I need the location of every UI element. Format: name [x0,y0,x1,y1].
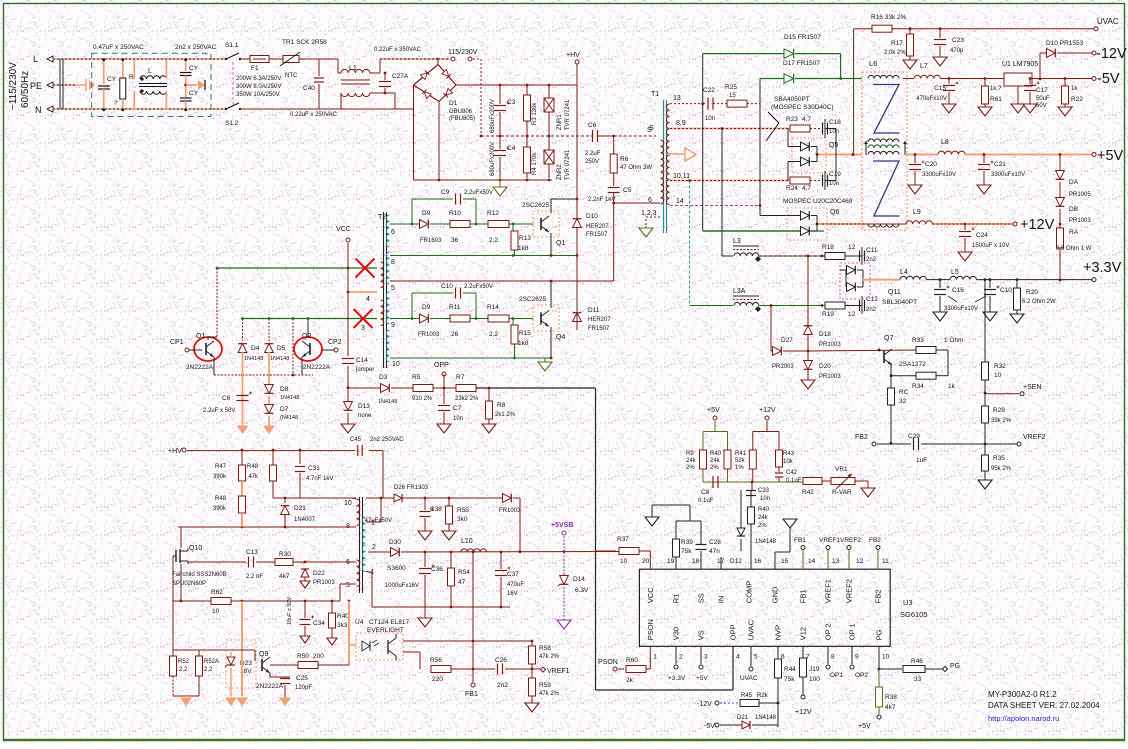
svg-text:1N4007: 1N4007 [294,517,316,523]
svg-text:L3: L3 [733,238,741,245]
svg-text:75k: 75k [681,548,692,555]
svg-text:HER207: HER207 [588,317,611,323]
svg-text:D15 FR1507: D15 FR1507 [784,34,821,41]
svg-text:Q5: Q5 [829,142,838,149]
svg-text:C17: C17 [1036,87,1048,94]
svg-text:1%: 1% [735,465,744,471]
svg-text:2k1 2%: 2k1 2% [495,412,516,418]
svg-text:V12: V12 [799,627,808,640]
svg-text:SBL3040PT: SBL3040PT [882,299,917,306]
svg-text:Fairchild SSS2N60B: Fairchild SSS2N60B [172,572,227,578]
svg-text:Q4: Q4 [556,334,565,341]
svg-text:C15: C15 [934,85,946,92]
svg-text:R9: R9 [686,451,694,457]
svg-text:5: 5 [346,582,350,589]
svg-text:D27: D27 [781,337,793,344]
svg-text:T2: T2 [378,214,386,221]
svg-text:L: L [148,68,152,75]
svg-text:6.2 Ohm 2W: 6.2 Ohm 2W [1022,299,1056,305]
svg-text:R52A: R52A [204,659,219,665]
svg-text:26: 26 [451,331,459,338]
svg-text:F1: F1 [251,65,259,72]
svg-text:L5: L5 [951,269,959,276]
svg-text:R45: R45 [741,693,753,699]
svg-text:PE: PE [30,81,42,91]
svg-text:4: 4 [736,653,740,660]
svg-text:C45: C45 [350,437,362,443]
svg-text:Q2: Q2 [302,333,311,340]
svg-text:95k 2%: 95k 2% [991,466,1012,472]
svg-text:R40: R40 [758,507,770,513]
svg-text:47k 2%: 47k 2% [539,654,560,660]
svg-text:R62: R62 [211,589,223,596]
svg-text:R58: R58 [539,645,551,652]
svg-text:R12: R12 [487,210,499,217]
svg-text:220: 220 [432,676,443,683]
svg-text:-12V: -12V [697,701,712,708]
svg-text:GND: GND [771,586,780,603]
svg-text:R5: R5 [412,374,421,381]
svg-text:R1: R1 [672,594,681,604]
svg-text:CY: CY [107,76,117,83]
svg-text:1N4148: 1N4148 [378,399,397,405]
svg-text:3k0: 3k0 [457,516,468,523]
svg-text:T1: T1 [651,91,659,98]
svg-text:R55: R55 [457,507,469,514]
svg-text:SS: SS [697,593,706,603]
svg-text:C14: C14 [356,357,368,364]
svg-text:R14: R14 [487,304,499,311]
svg-text:1,2,3: 1,2,3 [641,210,657,217]
svg-text:U3: U3 [903,598,913,607]
svg-text:47 Ohm 3W: 47 Ohm 3W [620,165,652,171]
svg-text:OP2: OP2 [855,672,868,679]
svg-text:L4: L4 [900,269,908,276]
svg-text:47n: 47n [709,548,720,555]
svg-text:+5V: +5V [696,675,708,682]
svg-text:SG6105: SG6105 [900,610,928,619]
svg-text:D5: D5 [277,345,286,352]
svg-text:PR1003: PR1003 [772,364,794,370]
svg-text:GBU806: GBU806 [449,109,473,115]
svg-text:N: N [35,105,42,115]
svg-text:CP2: CP2 [328,339,342,346]
svg-text:ZNR1: ZNR1 [557,114,563,130]
svg-text:2,2: 2,2 [179,667,188,673]
svg-text:~115/230V: ~115/230V [8,62,19,110]
svg-text:300W 8.0A/250V: 300W 8.0A/250V [236,84,281,90]
svg-text:C38: C38 [430,506,442,513]
svg-text:R23: R23 [786,116,798,123]
svg-text:390k: 390k [213,506,227,512]
svg-text:+12V: +12V [795,709,812,716]
svg-text:R38: R38 [885,694,897,701]
svg-text:10n: 10n [760,496,770,502]
svg-text:4.7nF 1kV: 4.7nF 1kV [306,476,333,482]
svg-text:10: 10 [212,608,220,615]
svg-text:200: 200 [313,653,324,660]
svg-text:2N2222A: 2N2222A [186,364,214,371]
svg-text:2N2222A: 2N2222A [303,364,331,371]
svg-text:50V: 50V [1036,103,1047,109]
svg-text:36: 36 [451,237,459,244]
svg-text:R44: R44 [784,666,796,673]
svg-text:S: S [647,127,652,134]
svg-text:C7: C7 [453,405,462,412]
svg-text:R13: R13 [519,235,531,242]
svg-text:+5V: +5V [1097,148,1124,164]
svg-text:PSON: PSON [598,659,618,666]
svg-text:10: 10 [994,372,1002,379]
svg-text:PR1003: PR1003 [819,374,841,380]
svg-text:R34: R34 [912,383,924,390]
svg-text:U1 LM7905: U1 LM7905 [1002,61,1038,68]
svg-text:D30: D30 [389,539,401,546]
svg-text:R30: R30 [279,551,291,558]
svg-text:24k: 24k [686,458,697,464]
svg-text:-12V: -12V [1096,46,1127,62]
svg-text:CT124 EL817: CT124 EL817 [369,619,409,626]
svg-text:R16 33k 2%: R16 33k 2% [871,14,907,21]
svg-text:0.5 Ohm 1 W: 0.5 Ohm 1 W [1056,246,1092,252]
svg-text:OPP: OPP [434,362,449,369]
svg-text:2,2: 2,2 [489,331,498,338]
svg-text:4: 4 [366,296,370,303]
svg-text:16: 16 [754,558,762,565]
svg-text:DB: DB [1069,206,1078,213]
svg-text:680uFx200V: 680uFx200V [490,99,496,133]
svg-text:+HV: +HV [168,448,182,455]
svg-text:2n2: 2n2 [497,682,508,689]
svg-text:D11: D11 [588,307,600,314]
svg-text:32: 32 [899,398,907,405]
svg-text:V30: V30 [672,627,681,640]
svg-text:3300uFx10V: 3300uFx10V [944,306,978,312]
svg-text:FR1507: FR1507 [586,232,608,238]
svg-text:C21: C21 [994,161,1006,168]
svg-text:R37: R37 [617,536,629,543]
svg-text:1uF: 1uF [916,457,927,464]
svg-text:DA: DA [1069,179,1079,186]
svg-text:L: L [33,54,38,64]
svg-text:6: 6 [391,229,395,236]
svg-text:13: 13 [673,95,681,102]
svg-text:jumper: jumper [355,367,374,373]
svg-text:R59: R59 [539,682,551,689]
svg-text:R3 130k: R3 130k [532,102,538,125]
svg-text:none: none [358,413,372,419]
svg-text:R24: R24 [786,185,798,192]
svg-text:18: 18 [692,558,700,565]
svg-text:1k ?: 1k ? [990,86,1002,92]
svg-text:1k: 1k [1071,86,1078,92]
svg-text:D4: D4 [251,345,260,352]
svg-text:23k2 2%: 23k2 2% [455,396,479,402]
svg-text:R10: R10 [449,210,461,217]
svg-text:D1: D1 [449,100,458,107]
svg-text:R-VAR: R-VAR [832,489,852,496]
svg-text:115/230V: 115/230V [448,49,478,56]
svg-text:10: 10 [882,653,890,660]
svg-text:C31: C31 [308,465,320,472]
svg-text:Q6: Q6 [830,209,839,216]
svg-text:R43: R43 [783,451,795,457]
svg-text:(FBU805): (FBU805) [449,116,475,122]
svg-text:3: 3 [704,653,708,660]
svg-text:47uFx50V: 47uFx50V [365,518,392,524]
svg-text:FR1003: FR1003 [418,332,440,338]
svg-text:14: 14 [808,558,816,565]
svg-text:C4: C4 [507,145,516,152]
svg-text:D12: D12 [730,558,742,565]
svg-text:11: 11 [882,558,889,565]
svg-text:D14: D14 [573,576,585,583]
svg-text:39k 2%: 39k 2% [991,418,1012,424]
svg-text:FB2: FB2 [855,434,868,441]
svg-text:L10: L10 [461,538,473,545]
svg-text:FB2: FB2 [874,589,883,603]
svg-text:1k8: 1k8 [518,340,529,347]
svg-text:RA: RA [1069,229,1079,236]
svg-text:10n: 10n [829,181,839,187]
svg-text:DATA SHEET VER. 27.02.2004: DATA SHEET VER. 27.02.2004 [988,701,1100,710]
svg-text:R29: R29 [993,407,1005,414]
svg-text:1000uFx16V: 1000uFx16V [385,583,419,589]
svg-text:SPU02N60P: SPU02N60P [172,581,206,587]
svg-text:Q11: Q11 [888,289,901,296]
svg-text:D17 FR1507: D17 FR1507 [783,60,820,67]
svg-text:33: 33 [914,676,922,683]
svg-text:4k7: 4k7 [279,573,290,580]
svg-text:47k: 47k [248,474,259,480]
svg-text:2%: 2% [758,523,767,529]
svg-text:R50: R50 [297,653,309,660]
svg-text:CY: CY [189,65,199,72]
svg-text:C36: C36 [431,566,443,573]
svg-text:L7: L7 [920,63,928,70]
svg-text:120pF: 120pF [295,685,312,691]
svg-text:FB1: FB1 [799,589,808,603]
svg-text:C40: C40 [303,85,315,92]
svg-text:R52: R52 [178,659,190,665]
svg-text:0.1uF: 0.1uF [698,498,714,504]
svg-text:L6: L6 [869,59,877,68]
svg-text:0.47uF x 250VAC: 0.47uF x 250VAC [93,44,144,51]
svg-text:14: 14 [676,198,684,205]
svg-text:12: 12 [848,244,856,251]
svg-text:75k: 75k [784,676,795,683]
svg-text:R4 170k: R4 170k [532,152,538,175]
svg-text:R48: R48 [247,464,259,470]
svg-text:J19: J19 [809,666,820,673]
svg-text:R15: R15 [519,330,531,337]
svg-text:+3.3V: +3.3V [668,675,686,682]
svg-text:NVP: NVP [774,625,783,640]
svg-text:R39: R39 [681,539,693,546]
svg-text:TVR 07241: TVR 07241 [565,99,571,130]
svg-text:VR1: VR1 [835,466,848,473]
svg-text:R6: R6 [620,156,629,163]
svg-text:2n2 250VAC: 2n2 250VAC [370,437,404,443]
svg-text:2%: 2% [710,465,719,471]
svg-text:10uF x 50V: 10uF x 50V [287,597,293,625]
svg-text:C13: C13 [246,549,258,556]
svg-text:1500uF x 10V: 1500uF x 10V [972,243,1009,249]
svg-text:MOSPEC U20C20C469: MOSPEC U20C20C469 [783,198,853,205]
svg-text:R33: R33 [912,337,924,344]
svg-text:R: R [129,74,134,81]
svg-text:2SC2625: 2SC2625 [522,202,549,209]
svg-text:PR1003: PR1003 [1069,218,1091,224]
svg-text:R47: R47 [215,464,227,470]
svg-text:+5V: +5V [707,407,720,414]
svg-text:1N4148: 1N4148 [755,715,777,721]
svg-text:52k: 52k [735,458,746,464]
svg-text:PR1003: PR1003 [313,580,335,586]
svg-text:8: 8 [391,259,395,266]
svg-text:OP 2: OP 2 [824,623,833,640]
svg-text:10,11: 10,11 [673,173,690,180]
svg-text:C18: C18 [829,119,841,126]
svg-text:350W 10A/250V: 350W 10A/250V [236,92,280,98]
svg-text:MY-P300A2-0 R1.2: MY-P300A2-0 R1.2 [988,690,1057,699]
svg-text:Q10: Q10 [189,545,202,552]
svg-text:U4: U4 [355,619,364,626]
svg-text:C19: C19 [829,171,841,178]
svg-text:C9: C9 [441,189,450,196]
svg-text:R11: R11 [449,304,461,311]
svg-text:3300uFx10V: 3300uFx10V [991,172,1025,178]
svg-text:C42: C42 [786,470,798,476]
svg-text:R7: R7 [456,374,465,381]
svg-text:250V: 250V [585,159,599,165]
svg-text:8,9: 8,9 [676,120,686,127]
svg-text:R40: R40 [710,451,722,457]
svg-text:C20: C20 [925,161,937,168]
svg-text:NTC: NTC [285,73,298,79]
svg-text:PG: PG [875,629,884,640]
svg-text:1N4148: 1N4148 [244,356,263,362]
svg-text:1N4148: 1N4148 [755,539,777,545]
svg-text:R48: R48 [215,496,227,502]
svg-text:C37: C37 [507,571,519,578]
svg-text:D13: D13 [358,403,370,410]
svg-text:C28: C28 [709,539,721,546]
svg-text:2.2uF x 50V: 2.2uF x 50V [203,408,235,414]
svg-text:C16: C16 [952,287,964,294]
svg-text:CY: CY [189,90,199,97]
svg-text:C5: C5 [623,187,632,194]
svg-text:2N2222A: 2N2222A [256,683,284,690]
svg-text:12: 12 [848,311,856,318]
svg-text:L9: L9 [913,209,921,216]
svg-text:L8: L8 [941,139,949,146]
svg-text:ZNR2: ZNR2 [557,164,563,180]
svg-text:COMP: COMP [745,581,754,604]
svg-text:4,7: 4,7 [802,185,811,192]
svg-text:5: 5 [391,285,395,292]
svg-text:10n: 10n [705,116,715,122]
svg-text:0.22uF x 250VAC: 0.22uF x 250VAC [290,112,338,118]
svg-text:VREF2: VREF2 [1023,434,1046,441]
svg-text:2,2nF 1kV: 2,2nF 1kV [588,197,615,203]
svg-text:D7: D7 [280,406,289,413]
svg-text:UVAC: UVAC [740,675,758,682]
svg-text:SBA4050PT: SBA4050PT [774,96,810,103]
svg-text:http://apolon.narod.ru: http://apolon.narod.ru [988,714,1059,723]
svg-text:200W 6.3A/250V: 200W 6.3A/250V [236,76,281,82]
svg-text:390k: 390k [213,474,227,480]
svg-text:1N4148: 1N4148 [270,356,289,362]
svg-text:C6: C6 [222,395,231,402]
svg-text:VREF2: VREF2 [840,537,861,544]
svg-text:5: 5 [754,653,758,660]
svg-text:15: 15 [781,558,789,565]
svg-text:Q9: Q9 [259,651,268,658]
svg-text:C33: C33 [758,488,770,494]
svg-text:24k: 24k [758,515,769,521]
svg-text:L3A: L3A [733,288,746,295]
svg-text:R32: R32 [994,363,1006,370]
svg-text:PR1005: PR1005 [1069,192,1091,198]
svg-text:R17: R17 [891,40,903,47]
svg-text:VREF1: VREF1 [547,668,570,675]
svg-text:VS: VS [697,630,706,640]
svg-text:10: 10 [392,361,400,368]
svg-text:2,2: 2,2 [489,237,498,244]
svg-text:12: 12 [856,558,864,565]
svg-text:680uFx200V: 680uFx200V [490,142,496,176]
svg-text:9: 9 [391,322,395,329]
svg-text:R60: R60 [626,657,638,664]
svg-text:1k: 1k [948,383,956,390]
svg-text:PR1003: PR1003 [819,342,841,348]
svg-text:910 2%: 910 2% [412,396,433,402]
svg-text:16V: 16V [507,591,518,597]
svg-text:PG: PG [950,663,960,670]
svg-text:470uFx10V: 470uFx10V [916,96,947,102]
svg-text:0.22uF x 350VAC: 0.22uF x 350VAC [374,47,422,53]
svg-text:2%: 2% [686,465,695,471]
svg-text:R8: R8 [497,402,506,409]
svg-text:3: 3 [361,325,365,332]
svg-text:-5V: -5V [1097,71,1120,87]
svg-text:C10: C10 [1000,287,1012,294]
svg-text:10k: 10k [783,459,794,465]
svg-text:C10: C10 [441,283,453,290]
svg-text:RC: RC [899,389,909,396]
svg-text:2k: 2k [626,677,634,684]
svg-text:4,7: 4,7 [802,116,811,123]
svg-text:VCC: VCC [646,587,655,603]
svg-text:2.0k 2%: 2.0k 2% [884,50,906,56]
svg-text:2: 2 [372,544,376,551]
svg-text:C27A: C27A [392,73,409,80]
svg-text:2.2uF: 2.2uF [585,151,601,157]
svg-text:R42: R42 [802,489,814,496]
svg-text:D18: D18 [819,331,831,338]
svg-text:2.2uFx50V: 2.2uFx50V [464,284,493,290]
svg-text:+SEN: +SEN [1023,384,1041,391]
svg-text:1 Ohm: 1 Ohm [944,337,964,344]
svg-text:D22: D22 [313,570,325,577]
svg-text:TVR 07241: TVR 07241 [565,149,571,180]
svg-text:R18: R18 [822,244,834,251]
svg-text:S3600: S3600 [387,565,406,572]
svg-text:+5VSB: +5VSB [551,522,573,529]
svg-text:VREF1: VREF1 [824,579,833,603]
svg-text:8: 8 [831,653,835,660]
